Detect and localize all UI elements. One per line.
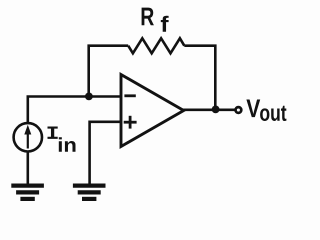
op-amp U1: minus sign (inverting input) [124,94,135,97]
wire: current source bottom to ground [26,152,29,185]
wire: input line from current source up and right to op-amp inverting input [28,97,121,124]
label Vout [246,100,286,121]
wire: feedback left vertical + top horizontal to resistor [89,46,129,97]
op-amp U1: triangle body [121,75,184,147]
ground (left, below current source) [11,186,44,199]
wire: top right horizontal + right vertical down to output node [184,46,215,110]
ground (right, below non-inverting input) [73,186,106,199]
op-amp U1: plus sign (non-inverting input) [124,121,137,124]
node A: junction dot at inverting input [85,93,93,101]
current source I1: circle [14,123,42,151]
resistor Rf: zigzag [128,38,184,53]
current source I1: arrow up [27,130,29,149]
wire: non-inverting input to ground [90,122,121,184]
label Iin [47,126,75,151]
wire: output horizontal from op-amp apex to terminal [183,109,236,112]
node B: junction dot at output [212,106,220,114]
output terminal Vout: open circle [236,107,242,113]
label Rf [142,8,169,32]
